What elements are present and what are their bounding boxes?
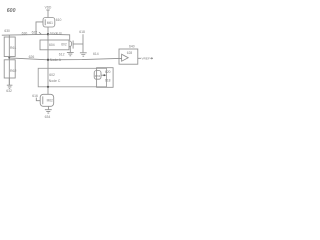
svg-text:M62: M62: [47, 99, 53, 103]
ground symbol left: [7, 85, 13, 88]
wire M62 to ground: [47, 106, 49, 109]
wire main vertical: [47, 27, 49, 94]
ground under switch cell: [67, 47, 74, 56]
wire VDD to transistor M61: [47, 10, 49, 18]
junction on module bottom: [47, 86, 49, 88]
op-amp triangle: [122, 54, 129, 61]
wire gate feedback of M61: [36, 22, 43, 35]
svg-text:616: 616: [32, 94, 38, 98]
switch cell: [69, 41, 72, 47]
current source block 604: [40, 40, 69, 50]
mirror sub box: [97, 68, 114, 88]
ground symbol bottom: [45, 110, 52, 113]
svg-text:620: 620: [105, 70, 111, 74]
svg-text:626: 626: [29, 55, 35, 59]
transistor M63: [94, 71, 101, 80]
svg-text:610: 610: [56, 18, 62, 22]
output arrow: [150, 58, 152, 60]
svg-text:630: 630: [4, 29, 10, 33]
svg-text:618: 618: [105, 79, 111, 83]
svg-text:Node C: Node C: [49, 79, 61, 83]
wire node A horizontal: [9, 58, 121, 60]
node A: [47, 59, 49, 61]
transistor M62: [40, 94, 54, 106]
node B: [47, 33, 49, 35]
wire M63 drain stub: [101, 74, 107, 76]
wire op-amp output: [138, 57, 141, 59]
svg-text:618: 618: [79, 30, 85, 34]
svg-text:614: 614: [93, 52, 99, 56]
svg-text:R61: R61: [10, 46, 16, 50]
svg-text:VREF: VREF: [142, 57, 150, 61]
svg-text:Node A: Node A: [50, 58, 62, 62]
svg-text:602: 602: [61, 42, 67, 46]
svg-text:602: 602: [49, 73, 55, 77]
svg-text:628: 628: [127, 51, 133, 55]
svg-text:VDD: VDD: [45, 6, 52, 10]
ground capacitor bars: [80, 53, 87, 56]
transistor M61: [43, 18, 55, 28]
svg-text:622: 622: [32, 30, 38, 34]
wire R62 to ground: [8, 78, 10, 85]
svg-text:640: 640: [129, 45, 135, 49]
svg-text:R62: R62: [10, 69, 16, 73]
svg-text:632: 632: [6, 89, 12, 93]
capacitor branch wire: [82, 34, 84, 52]
resistor R61: [4, 37, 15, 57]
module box dashed: [38, 68, 106, 87]
wire top horizontal to node B: [2, 33, 48, 36]
wire gate of M62: [36, 98, 40, 101]
svg-text:M63: M63: [95, 74, 101, 78]
op-amp box: [119, 49, 138, 64]
leader arrow to wire: [39, 32, 41, 34]
wire node B to right branch: [48, 34, 70, 40]
svg-text:612: 612: [59, 53, 65, 57]
svg-text:634: 634: [45, 115, 51, 119]
wire left branch vertical: [8, 35, 10, 85]
svg-text:600: 600: [7, 8, 16, 14]
svg-text:M61: M61: [47, 21, 53, 25]
VDD rail tick: [46, 9, 49, 11]
node tap between R61 and R62: [8, 57, 10, 59]
node in mirror box: [103, 74, 105, 76]
svg-text:604: 604: [49, 43, 55, 47]
wire block to capacitor branch: [73, 43, 83, 45]
resistor R62: [4, 60, 15, 78]
